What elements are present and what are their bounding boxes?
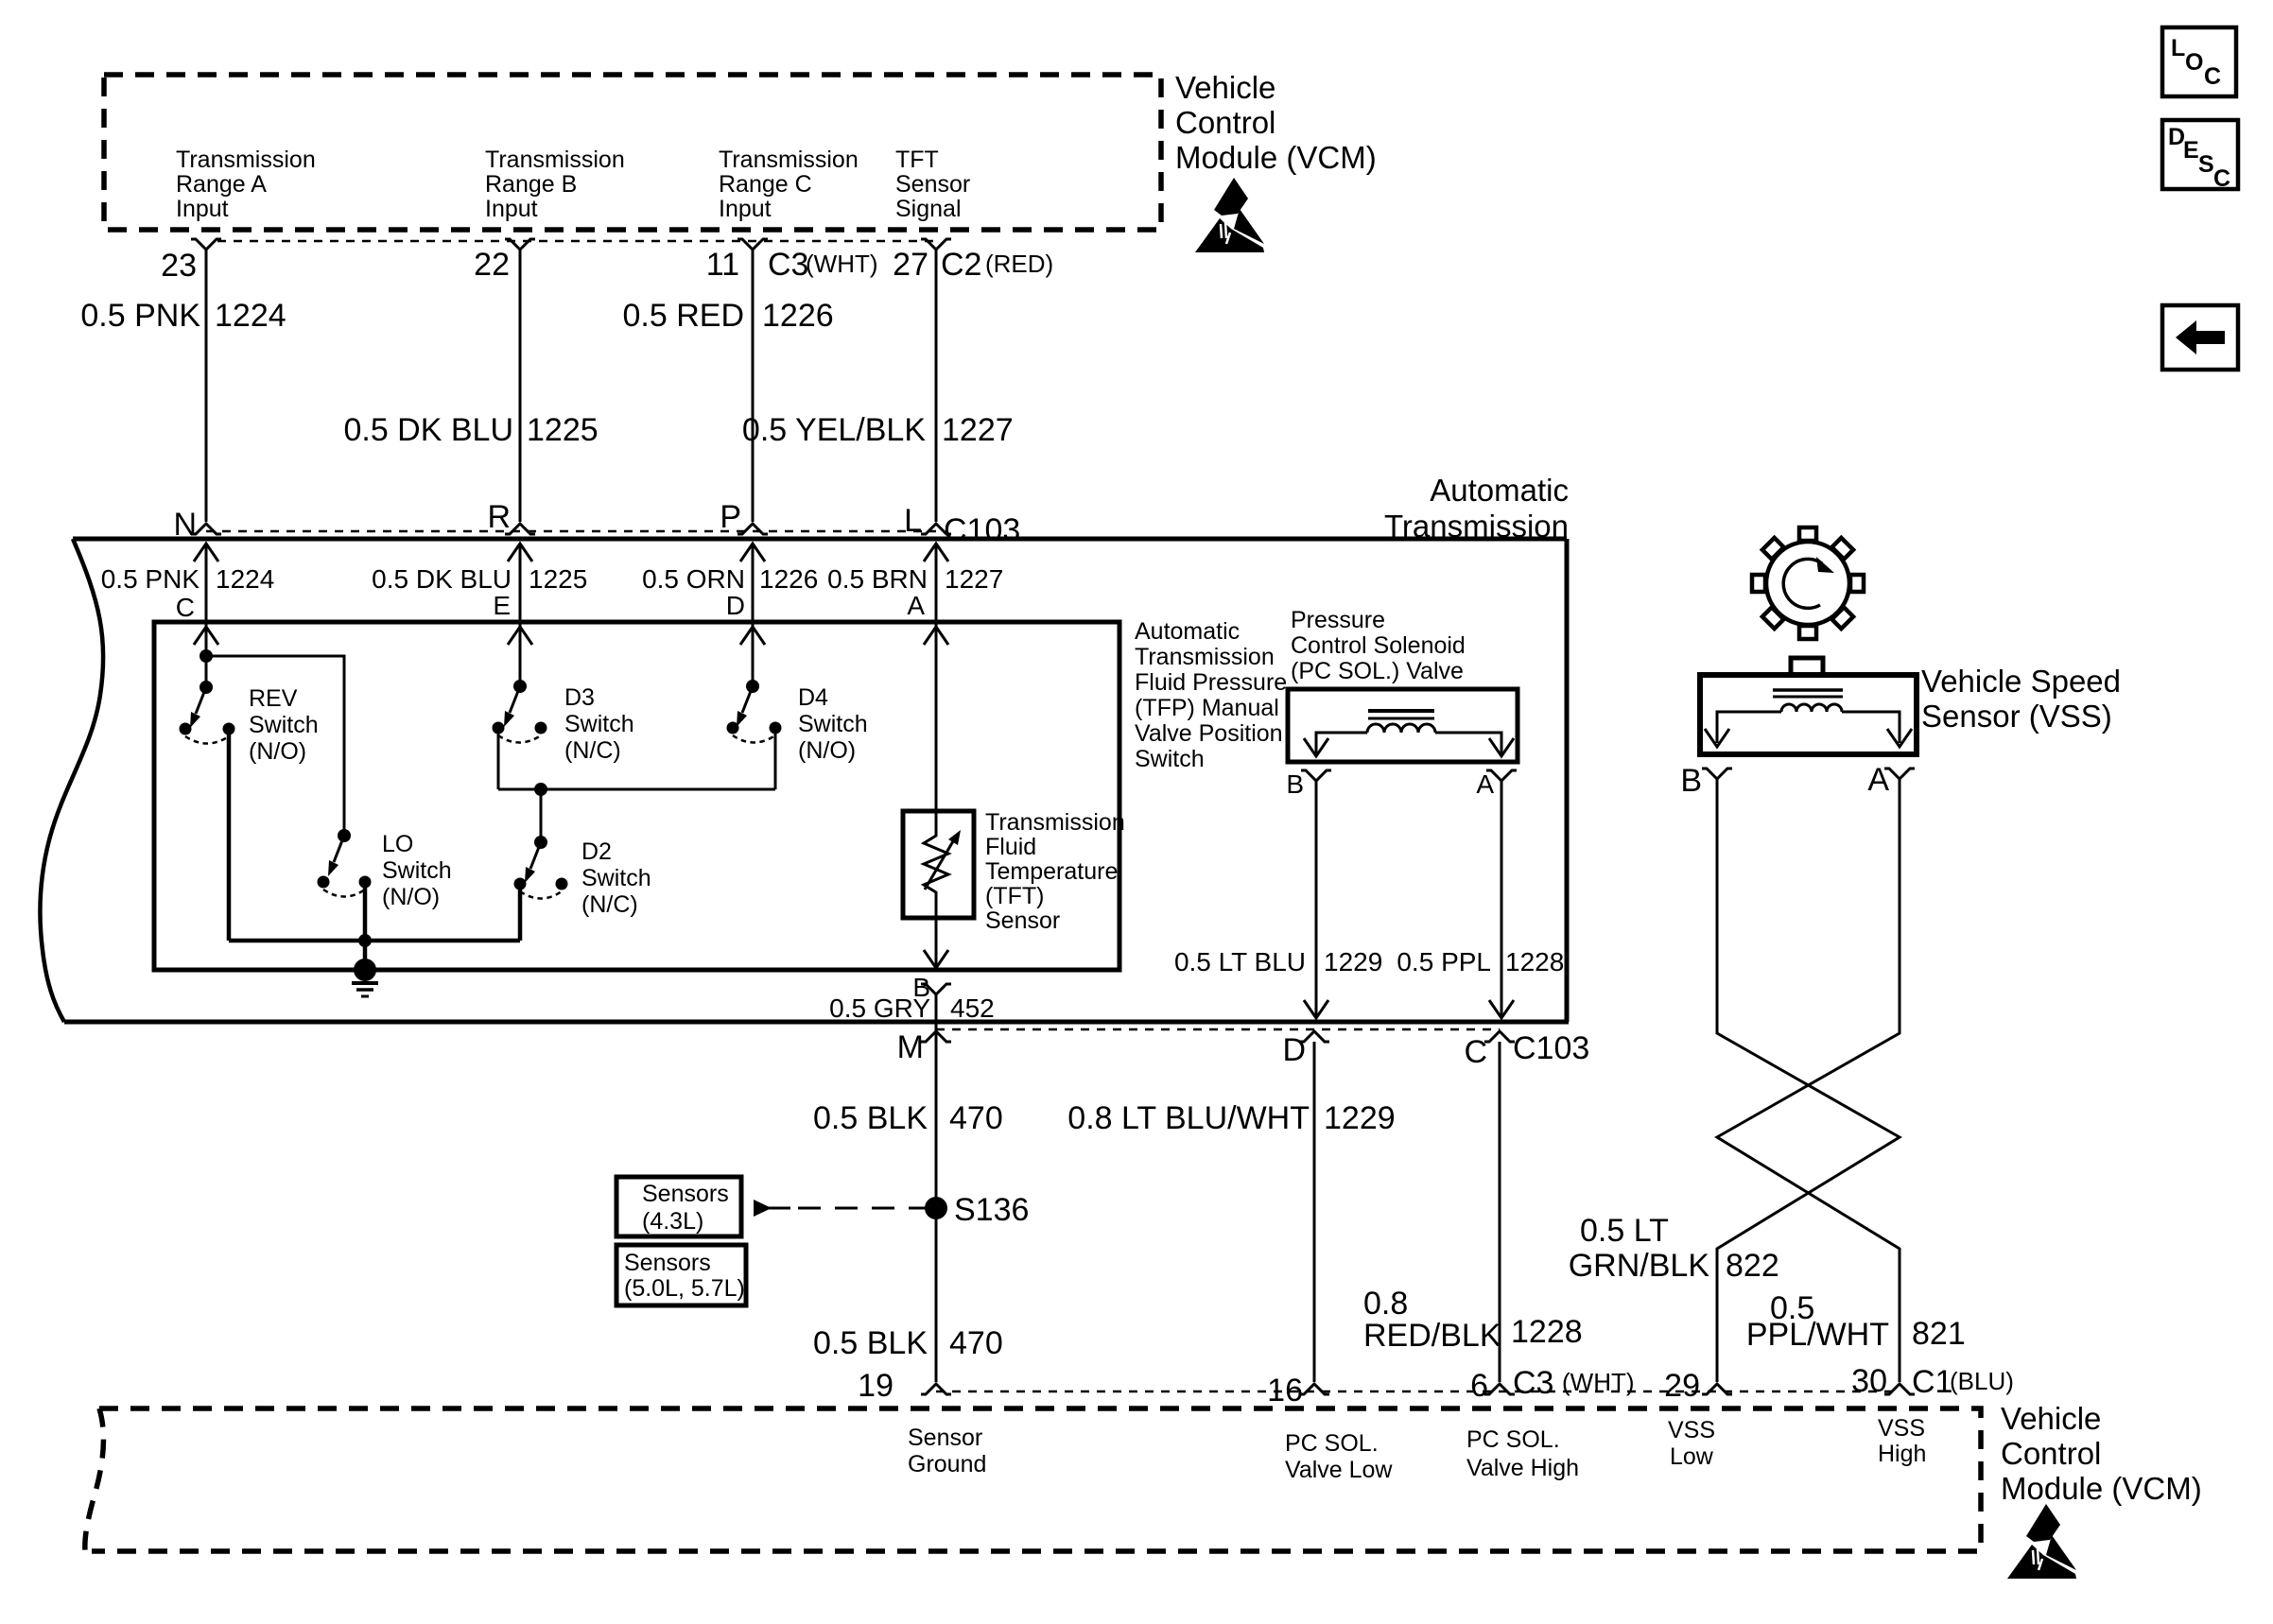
svg-text:0.5 DK BLU: 0.5 DK BLU: [372, 564, 512, 594]
svg-text:L: L: [2171, 35, 2185, 61]
svg-text:1226: 1226: [762, 298, 834, 334]
svg-text:(TFT): (TFT): [985, 883, 1044, 909]
svg-text:(5.0L, 5.7L): (5.0L, 5.7L): [624, 1275, 745, 1302]
VSS core lines: [1773, 690, 1843, 697]
wire label 0.5 DK BLU 1225: [343, 412, 598, 448]
svg-text:A: A: [907, 591, 925, 620]
svg-text:R: R: [487, 499, 511, 535]
connector Y pin B solenoid: [1301, 770, 1331, 781]
arrow up wire A: [924, 544, 948, 561]
arrow down TFT wire at switch box bottom: [924, 950, 948, 968]
D2 switch arm: [525, 842, 541, 883]
D3 switch left contact: [493, 722, 505, 734]
solenoid lead left: [1316, 733, 1367, 753]
caret terminal L: [921, 524, 951, 534]
svg-text:16: 16: [1267, 1373, 1303, 1408]
svg-text:C: C: [2204, 63, 2221, 90]
svg-text:Input: Input: [176, 196, 229, 222]
connector Y pin A VSS: [1884, 769, 1915, 779]
svg-text:C: C: [176, 593, 195, 622]
back-arrow box: [2162, 305, 2238, 370]
svg-text:(N/C): (N/C): [564, 737, 621, 764]
svg-text:P: P: [720, 499, 741, 535]
wire label 0.5 PPL/WHT 821: [1746, 1290, 1966, 1353]
svg-text:0.5 GRY: 0.5 GRY: [829, 993, 930, 1023]
splice node S136: [925, 1197, 947, 1219]
svg-text:Vehicle: Vehicle: [2001, 1401, 2101, 1436]
D3 switch arm: [504, 686, 520, 727]
wire label 0.5 BLK 470: [813, 1100, 1003, 1136]
caret terminal M: [921, 1031, 951, 1042]
arrow up wire C: [194, 544, 218, 561]
label PC SOL. Valve Low: [1285, 1430, 1393, 1483]
svg-text:Fluid Pressure: Fluid Pressure: [1135, 669, 1287, 696]
svg-text:1229: 1229: [1324, 947, 1382, 976]
svg-text:11: 11: [706, 247, 739, 283]
svg-text:Valve High: Valve High: [1466, 1455, 1579, 1481]
REV switch contact arc: [185, 736, 229, 744]
svg-text:0.8: 0.8: [1363, 1286, 1408, 1322]
label LO Switch (N/O): [382, 831, 452, 910]
svg-text:C3: C3: [768, 247, 808, 283]
svg-text:1227: 1227: [942, 412, 1014, 448]
node junction D2 tap: [534, 783, 547, 796]
svg-text:22: 22: [474, 247, 510, 283]
REV switch arm: [190, 687, 206, 728]
svg-text:Control Solenoid: Control Solenoid: [1291, 632, 1466, 659]
svg-text:0.5 PNK: 0.5 PNK: [80, 298, 200, 334]
arrow up inner wire C: [194, 627, 218, 645]
Vehicle Speed Sensor body: [1700, 675, 1917, 754]
svg-text:Valve Low: Valve Low: [1285, 1457, 1393, 1483]
svg-text:0.5 RED: 0.5 RED: [623, 298, 745, 334]
Sensors (5.0L, 5.7L) box: [616, 1245, 746, 1305]
svg-text:(PC SOL.) Valve: (PC SOL.) Valve: [1291, 658, 1464, 684]
svg-text:RED/BLK: RED/BLK: [1363, 1318, 1501, 1354]
arrow up inner wire A: [924, 627, 948, 645]
Automatic Transmission box top edge: [73, 537, 1567, 542]
svg-text:Transmission: Transmission: [176, 147, 316, 173]
svg-text:C: C: [1464, 1034, 1487, 1070]
D2 switch left contact: [514, 878, 527, 890]
VCM dashed box (top): [104, 75, 1161, 230]
label Transmission Fluid Temperature (TFT) Sensor: [985, 809, 1125, 934]
svg-text:Control: Control: [2001, 1436, 2101, 1471]
svg-text:Sensor: Sensor: [895, 171, 970, 198]
svg-text:6: 6: [1470, 1368, 1488, 1404]
wire label 0.5 PNK 1224: [80, 298, 286, 334]
svg-text:(4.3L): (4.3L): [642, 1208, 703, 1235]
svg-text:0.5 YEL/BLK: 0.5 YEL/BLK: [742, 412, 926, 448]
svg-text:Input: Input: [485, 196, 538, 222]
svg-text:GRN/BLK: GRN/BLK: [1569, 1248, 1710, 1284]
wire label 0.5 YEL/BLK 1227: [742, 412, 1014, 448]
wire branch to LO switch: [206, 656, 344, 836]
svg-text:B: B: [1680, 763, 1702, 799]
connector C2 line (thin dashed, VCM outputs): [217, 240, 936, 243]
caret terminal 30: [1884, 1384, 1915, 1394]
connector name C1 (BLU): [1912, 1364, 2014, 1400]
arrow down wire 1229 at case: [1304, 1000, 1328, 1018]
wire label 0.5 GRY 452: [829, 993, 995, 1023]
svg-text:D: D: [1282, 1032, 1306, 1068]
TFP manual valve position switch box: [154, 622, 1119, 970]
Sensors (4.3L) box: [616, 1177, 741, 1236]
svg-text:PC SOL.: PC SOL.: [1285, 1430, 1379, 1457]
label D2 Switch (N/C): [581, 838, 651, 918]
svg-text:Sensor: Sensor: [985, 907, 1060, 934]
wire 821 (VSS high) with crossover: [1717, 779, 1900, 1382]
wire 1226 (0.5 RED) upper: [752, 250, 755, 522]
svg-text:Module (VCM): Module (VCM): [1175, 140, 1377, 175]
wire 1228 (0.5 PPL): [1501, 781, 1503, 1018]
svg-text:1224: 1224: [216, 564, 274, 594]
svg-text:VSS: VSS: [1668, 1417, 1715, 1443]
label TFT Sensor Signal: [895, 147, 970, 222]
svg-text:Control: Control: [1175, 105, 1275, 140]
wire label 0.5 PPL 1228: [1397, 947, 1564, 976]
caret terminal R: [505, 524, 535, 534]
LO switch contact arc: [323, 890, 365, 897]
svg-text:VSS: VSS: [1878, 1415, 1925, 1442]
connector C1 line (thin dashed, bottom): [936, 1391, 1900, 1393]
svg-text:452: 452: [950, 993, 995, 1023]
label Automatic Transmission: [1384, 473, 1569, 544]
TFT sensor resistor zigzag: [924, 819, 948, 966]
svg-text:0.5 DK BLU: 0.5 DK BLU: [343, 412, 513, 448]
label Transmission Range B Input: [485, 147, 625, 222]
connector name C2 (RED): [941, 247, 1053, 283]
svg-text:470: 470: [949, 1100, 1003, 1136]
svg-text:C1: C1: [1912, 1364, 1952, 1400]
wire label 0.5 BRN 1227 inner: [827, 564, 1003, 594]
svg-text:PC SOL.: PC SOL.: [1466, 1426, 1560, 1453]
svg-text:1228: 1228: [1511, 1314, 1583, 1350]
svg-text:Sensor: Sensor: [908, 1425, 982, 1451]
svg-text:B: B: [1286, 769, 1304, 799]
svg-text:0.5 PNK: 0.5 PNK: [101, 564, 200, 594]
connector C103 line (thin dashed): [206, 530, 936, 533]
svg-text:Sensors: Sensors: [642, 1181, 729, 1207]
D4 switch arm: [737, 686, 753, 727]
solenoid lead right: [1435, 733, 1501, 753]
caret terminal 6: [1484, 1384, 1515, 1394]
wire label 0.5 ORN 1226 inner: [642, 564, 818, 594]
svg-text:C: C: [2213, 165, 2230, 192]
connector C103 lower line (thin dashed): [936, 1028, 1500, 1031]
caret terminal 16: [1299, 1384, 1329, 1394]
arrow up inner wire E: [508, 627, 532, 645]
svg-text:Vehicle: Vehicle: [1175, 70, 1275, 105]
wire 1225 (0.5 DK BLU) upper: [519, 250, 522, 522]
caret terminal N: [191, 524, 221, 534]
label PC SOL. Valve High: [1466, 1426, 1579, 1481]
TFT sensor box: [903, 811, 974, 918]
label Transmission Range C Input: [719, 147, 859, 222]
svg-text:C3: C3: [1513, 1365, 1553, 1401]
svg-text:REV: REV: [249, 685, 298, 712]
label D3 Switch (N/C): [564, 684, 634, 764]
arrow down wire 1228 at case: [1489, 1000, 1514, 1018]
svg-text:Vehicle Speed: Vehicle Speed: [1921, 664, 2121, 699]
caret terminal 19: [921, 1384, 951, 1394]
svg-text:M: M: [897, 1029, 924, 1065]
TFT sensor wire 4: [935, 544, 938, 819]
svg-text:C2: C2: [941, 247, 981, 283]
svg-text:E: E: [2183, 137, 2199, 164]
svg-text:(TFP) Manual: (TFP) Manual: [1135, 695, 1279, 721]
wire 1227 (0.5 YEL/BLK) upper: [935, 250, 938, 522]
svg-text:(N/O): (N/O): [382, 884, 440, 910]
svg-text:PPL/WHT: PPL/WHT: [1746, 1317, 1889, 1353]
svg-text:822: 822: [1726, 1248, 1779, 1284]
svg-text:Switch: Switch: [382, 857, 452, 884]
D3 switch pivot node: [513, 680, 527, 693]
svg-text:D3: D3: [564, 684, 595, 711]
svg-text:0.5 ORN: 0.5 ORN: [642, 564, 745, 594]
Automatic Transmission box torn left edge: [40, 539, 103, 1022]
caret terminal D lower: [1299, 1031, 1329, 1042]
label VSS Low: [1668, 1417, 1715, 1470]
svg-text:Switch: Switch: [564, 711, 634, 737]
svg-text:1228: 1228: [1505, 947, 1564, 976]
D4 switch left contact: [727, 722, 739, 734]
svg-text:A: A: [1867, 762, 1889, 798]
wire link to D2 pivot: [540, 789, 543, 842]
svg-text:Switch: Switch: [249, 712, 319, 738]
svg-text:D: D: [726, 591, 745, 620]
wire 822 (VSS low) with crossover: [1717, 779, 1900, 1382]
svg-text:(WHT): (WHT): [1562, 1368, 1635, 1396]
svg-text:C103: C103: [944, 512, 1020, 548]
connector Y pin B TFT: [921, 984, 951, 994]
VCM dashed box (bottom): [85, 1408, 1981, 1551]
svg-text:Module (VCM): Module (VCM): [2001, 1471, 2202, 1506]
svg-text:D4: D4: [798, 684, 828, 711]
connector Y pin 23: [191, 239, 221, 250]
svg-text:(N/O): (N/O): [798, 737, 856, 764]
wire 1224 (0.5 PNK) upper: [205, 250, 208, 522]
svg-text:Switch: Switch: [1135, 746, 1205, 772]
svg-text:470: 470: [949, 1325, 1003, 1361]
svg-text:Range A: Range A: [176, 171, 267, 198]
VSS lead right: [1842, 712, 1900, 743]
svg-text:0.5 BRN: 0.5 BRN: [827, 564, 928, 594]
DESC box: [2162, 120, 2238, 192]
connector name C3 (WHT): [768, 247, 878, 283]
caret terminal C lower: [1484, 1031, 1515, 1042]
D2 switch pivot node: [534, 836, 547, 849]
arrow down VSS A: [1887, 729, 1912, 747]
wire 1228 lower segment: [1499, 1042, 1501, 1382]
svg-text:LO: LO: [382, 831, 413, 857]
D2 switch right contact: [556, 878, 568, 890]
VSS lead left: [1717, 712, 1781, 743]
svg-text:S: S: [2198, 151, 2214, 178]
wire label 0.8 RED/BLK 1228: [1363, 1286, 1583, 1354]
svg-text:A: A: [1476, 769, 1494, 799]
wire into TFP switch 3: [752, 544, 755, 686]
svg-text:Valve Position: Valve Position: [1135, 720, 1283, 747]
REV switch left contact: [180, 723, 192, 735]
wire LO contact to bus: [363, 882, 368, 941]
svg-text:Transmission: Transmission: [985, 809, 1125, 836]
wire 470 upper segment: [1313, 1042, 1316, 1382]
wire into TFP switch 2: [519, 544, 522, 686]
svg-text:(BLU): (BLU): [1950, 1367, 2014, 1395]
label Vehicle Speed Sensor (VSS): [1921, 664, 2121, 734]
svg-text:1227: 1227: [945, 564, 1003, 594]
wire label 0.5 RED 1226: [623, 298, 834, 334]
svg-text:Range B: Range B: [485, 171, 577, 198]
svg-text:C103: C103: [1513, 1030, 1589, 1066]
label Pressure Control Solenoid (PC SOL.) Valve: [1291, 607, 1466, 684]
label Sensor Ground: [908, 1425, 986, 1477]
pointer arrow to S136: [754, 1200, 927, 1217]
D4 switch pivot node: [746, 680, 759, 693]
label Vehicle Control Module (VCM) top: [1175, 70, 1377, 175]
svg-text:Transmission: Transmission: [719, 147, 859, 173]
svg-text:0.5 BLK: 0.5 BLK: [813, 1325, 928, 1361]
svg-text:Switch: Switch: [798, 711, 868, 737]
svg-text:(N/C): (N/C): [581, 891, 638, 918]
wire label 0.8 LT BLU/WHT 1229: [1067, 1100, 1395, 1136]
LO switch right contact: [359, 876, 372, 889]
D4 switch contact arc: [733, 735, 775, 743]
gear icon: [1752, 527, 1864, 639]
svg-text:Fluid: Fluid: [985, 834, 1036, 860]
svg-text:Input: Input: [719, 196, 772, 222]
svg-text:19: 19: [858, 1368, 894, 1404]
D3 switch contact arc: [498, 735, 541, 743]
ESD symbol bottom: [2007, 1504, 2076, 1579]
svg-text:0.5 LT BLU: 0.5 LT BLU: [1174, 947, 1306, 976]
svg-text:D2: D2: [581, 838, 612, 865]
wire into TFP switch 1: [205, 544, 208, 687]
label Vehicle Control Module (VCM) bottom: [2001, 1401, 2202, 1506]
arrow down VSS B: [1705, 729, 1729, 747]
svg-text:Switch: Switch: [581, 865, 651, 891]
wire label 0.5 LT BLU 1229: [1174, 947, 1382, 976]
D2 switch contact arc: [520, 891, 562, 899]
ground: [352, 959, 378, 996]
svg-text:(N/O): (N/O): [249, 738, 306, 765]
connector Y pin 11: [737, 239, 768, 250]
label Transmission Range A Input: [176, 147, 316, 222]
wire label 0.5 PNK 1224 inner: [101, 564, 275, 594]
svg-text:Signal: Signal: [895, 196, 962, 222]
svg-text:0.5 BLK: 0.5 BLK: [813, 1100, 928, 1136]
arrow up wire E: [508, 544, 532, 561]
solenoid core lines: [1368, 711, 1434, 718]
Pressure Control Solenoid box: [1288, 689, 1518, 762]
node junction wire1 branch: [200, 649, 213, 663]
svg-text:Pressure: Pressure: [1291, 607, 1385, 633]
svg-text:Sensors: Sensors: [624, 1250, 711, 1276]
LOC box: [2162, 27, 2236, 96]
LO switch pivot node: [338, 829, 351, 842]
wire label 0.5 DK BLU 1225 inner: [372, 564, 587, 594]
svg-text:S136: S136: [954, 1192, 1029, 1228]
svg-text:1225: 1225: [527, 412, 599, 448]
label Automatic Transmission Fluid Pressure (TFP) Manual Valve Position Switch: [1135, 618, 1287, 772]
node ground junction: [358, 934, 372, 947]
Automatic Transmission box bottom edge: [64, 1020, 1569, 1025]
wire D3 contact down: [497, 728, 500, 789]
connector Y pin 22: [505, 239, 535, 250]
TFT sensor variable arrow: [925, 830, 961, 890]
svg-text:Transmission: Transmission: [1135, 644, 1275, 670]
VSS coil: [1781, 704, 1842, 712]
D4 switch right contact: [770, 722, 782, 734]
wire 452 through case: [935, 994, 938, 1382]
svg-text:TFT: TFT: [895, 147, 939, 173]
arrow down solenoid B: [1304, 738, 1328, 756]
wire D3-D4 link: [498, 788, 775, 791]
wire label 0.5 LT GRN/BLK 822: [1569, 1213, 1779, 1284]
wire label 0.5 BLK 470 lower: [813, 1325, 1003, 1361]
REV switch pivot node: [200, 681, 213, 694]
connector Y pin 27: [921, 239, 951, 250]
arrow up wire D: [740, 544, 765, 561]
svg-text:Low: Low: [1670, 1443, 1714, 1470]
svg-text:1224: 1224: [215, 298, 286, 334]
LO switch arm: [328, 836, 344, 876]
wire to ground: [363, 941, 368, 970]
wire D4 contact down: [774, 728, 777, 789]
ground bus wire: [229, 939, 520, 943]
arrow down solenoid A: [1489, 738, 1514, 756]
svg-text:L: L: [904, 503, 922, 539]
svg-text:Range C: Range C: [719, 171, 812, 198]
svg-text:1225: 1225: [529, 564, 587, 594]
svg-text:Automatic: Automatic: [1430, 473, 1569, 508]
label VSS High: [1878, 1415, 1926, 1467]
svg-text:0.5 PPL: 0.5 PPL: [1397, 947, 1491, 976]
svg-text:30: 30: [1851, 1363, 1887, 1399]
svg-text:Sensor (VSS): Sensor (VSS): [1921, 699, 2112, 734]
REV switch right contact: [223, 723, 235, 735]
svg-text:O: O: [2185, 49, 2203, 76]
VSS mounting tab: [1791, 658, 1823, 675]
label D4 Switch (N/O): [798, 684, 868, 764]
svg-text:0.5 LT: 0.5 LT: [1580, 1213, 1669, 1249]
svg-text:Automatic: Automatic: [1135, 618, 1240, 645]
svg-text:27: 27: [893, 247, 928, 283]
caret terminal 29: [1702, 1384, 1732, 1394]
D3 switch right contact: [535, 722, 547, 734]
svg-text:1229: 1229: [1324, 1100, 1396, 1136]
connector Y pin B VSS: [1702, 769, 1732, 779]
Automatic Transmission box right edge: [1565, 539, 1570, 1022]
wire 1229 (0.5 LT BLU): [1315, 781, 1318, 1018]
svg-text:821: 821: [1912, 1316, 1966, 1352]
solenoid coil: [1367, 724, 1435, 733]
svg-text:E: E: [493, 591, 511, 620]
connector name C3 (WHT) bottom: [1513, 1365, 1635, 1401]
svg-text:0.8 LT BLU/WHT: 0.8 LT BLU/WHT: [1067, 1100, 1310, 1136]
svg-text:Transmission: Transmission: [485, 147, 625, 173]
arrow up inner wire D: [740, 627, 765, 645]
svg-text:29: 29: [1664, 1368, 1700, 1404]
svg-text:1226: 1226: [759, 564, 818, 594]
caret terminal P: [737, 524, 768, 534]
label REV Switch (N/O): [249, 685, 319, 765]
svg-text:(WHT): (WHT): [806, 250, 878, 278]
svg-text:Ground: Ground: [908, 1451, 986, 1477]
wire REV contact to bus: [227, 729, 232, 941]
svg-text:23: 23: [161, 248, 197, 284]
